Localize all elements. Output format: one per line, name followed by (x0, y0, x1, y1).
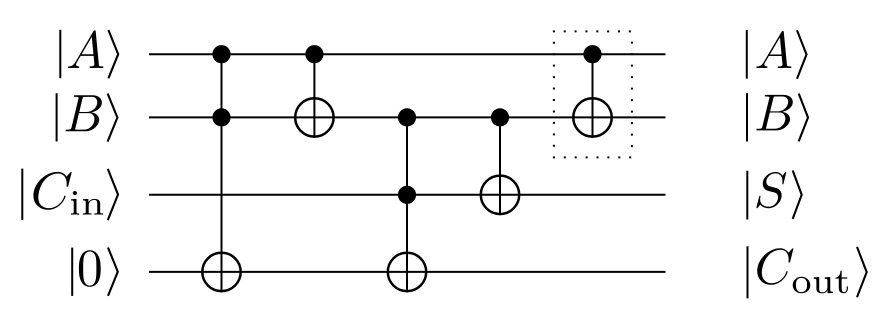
CNOT gate 5: vertical wire (592, 54, 594, 138)
Toffoli gate 1: vertical wire (221, 54, 223, 292)
left ket Cin: rangle (108, 169, 118, 220)
CNOT gate 4: target on Cin (481, 176, 519, 214)
Toffoli gate 3: vertical wire (406, 117, 408, 292)
wire qubit B (149, 116, 666, 118)
left ket 0: digit 0 (79, 250, 101, 286)
Toffoli gate 1: control on B (212, 108, 230, 126)
dotted highlight box around gate 5 (553, 30, 633, 158)
left ket Cin: letter C (33, 172, 71, 210)
CNOT gate 2: control on A (305, 45, 323, 63)
left ket B: letter B (66, 95, 102, 131)
wire qubit Cin (149, 194, 666, 196)
Toffoli gate 3: target on ancilla (388, 253, 426, 291)
right ket B: letter B (756, 95, 792, 130)
right ket Cout: rangle (857, 247, 867, 297)
left ket A: bar (59, 30, 61, 78)
wire qubit A (149, 53, 666, 55)
left ket B: bar (56, 93, 58, 141)
wire ancilla 0 (149, 271, 666, 273)
CNOT gate 5: control on A (583, 45, 601, 63)
CNOT gate 2: target on B (295, 98, 333, 136)
left ket Cin: subscript in (71, 191, 103, 215)
right ket A: rangle (797, 30, 807, 78)
left ket A: letter A (68, 30, 103, 68)
CNOT gate 2: vertical wire (313, 54, 315, 138)
left ket B: rangle (108, 94, 118, 142)
right ket Cout: letter C (757, 248, 793, 285)
CNOT gate 4: control on B (491, 108, 509, 126)
right ket S: letter S (756, 172, 786, 208)
CNOT gate 5: target on B (573, 98, 611, 136)
right ket S: rangle (793, 171, 802, 219)
Toffoli gate 3: control on B (398, 108, 416, 126)
Toffoli gate 3: control on Cin (398, 186, 416, 204)
Toffoli gate 1: target on ancilla (202, 253, 240, 291)
left ket A: rangle (108, 30, 118, 78)
right ket A: bar (746, 30, 748, 79)
CNOT gate 4: vertical wire (499, 117, 501, 215)
right ket B: rangle (799, 94, 808, 142)
Toffoli gate 1: control on A (212, 45, 230, 63)
right ket Cout: subscript out (793, 271, 848, 294)
right ket A: letter A (756, 31, 791, 68)
left ket 0: bar (71, 248, 73, 296)
left ket Cin: bar (21, 169, 23, 220)
right ket S: bar (746, 171, 748, 220)
right ket Cout: bar (747, 246, 749, 298)
right ket B: bar (746, 93, 748, 141)
left ket 0: rangle (108, 248, 118, 296)
